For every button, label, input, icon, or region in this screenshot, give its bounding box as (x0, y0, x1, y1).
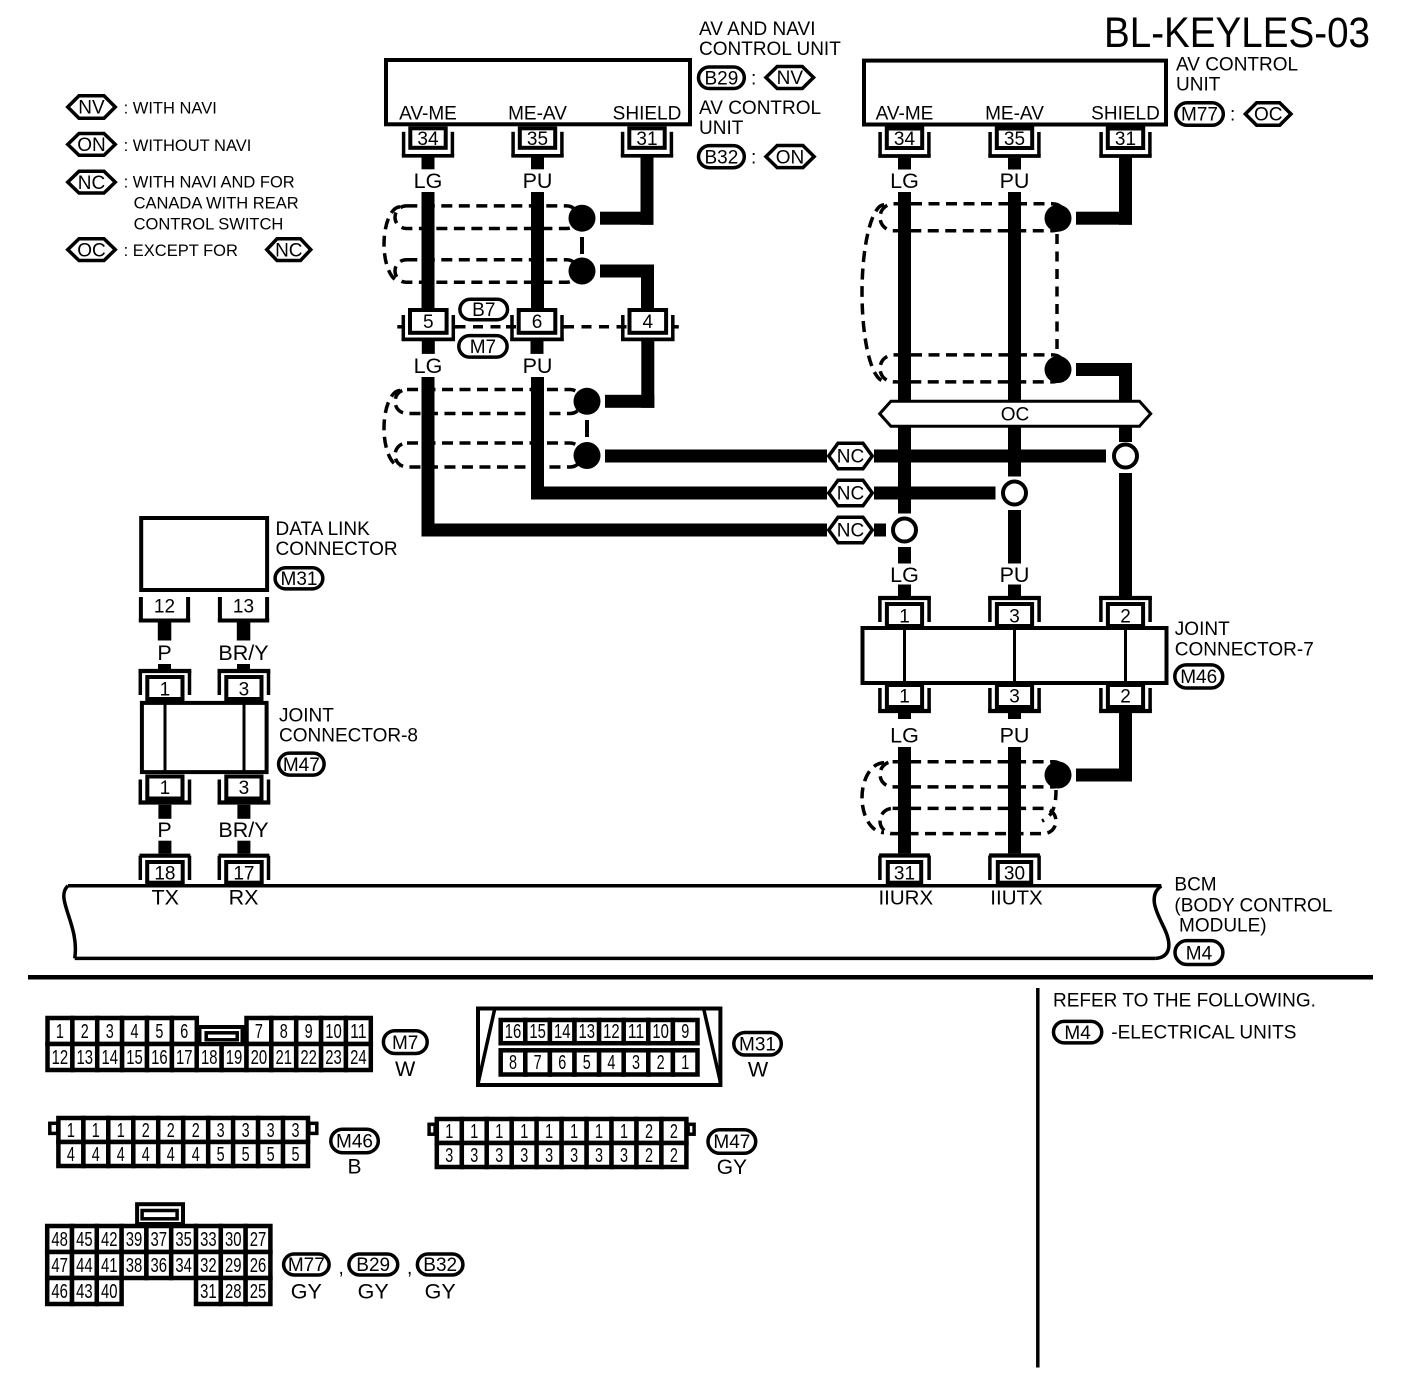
label BR/Y lower (218, 818, 268, 842)
connector ref M77 bottom (284, 1254, 330, 1276)
connector ref M7 bottom (383, 1031, 427, 1054)
wire shield31 right to dot (1076, 158, 1132, 225)
svg-text:17: 17 (233, 864, 254, 885)
svg-text:W: W (395, 1057, 416, 1081)
label RX (229, 886, 259, 910)
svg-text:34: 34 (417, 129, 439, 150)
svg-text:UNIT: UNIT (1176, 75, 1221, 96)
tag OC (1245, 103, 1291, 126)
JC-7 pin 3 top (988, 598, 1041, 628)
stub JC8 pin1 down (158, 805, 171, 819)
svg-text:P: P (157, 818, 171, 842)
svg-text:5: 5 (583, 1052, 591, 1074)
wire shield below banner (1119, 426, 1132, 442)
connector ref M77 (1176, 103, 1224, 126)
wire row2 right (874, 487, 996, 500)
pin 4 (617, 310, 679, 341)
pin 35 left (511, 128, 563, 169)
svg-text:30: 30 (1004, 864, 1025, 885)
pin 34 left (402, 128, 454, 169)
svg-text:TX: TX (152, 886, 179, 910)
svg-text:1: 1 (56, 1021, 64, 1043)
label DATA LINK CONNECTOR (276, 519, 398, 560)
separator line (28, 975, 1373, 980)
svg-text:23: 23 (325, 1047, 342, 1069)
JC-7 pin 2 top (1099, 598, 1152, 628)
svg-text:1: 1 (160, 778, 171, 799)
svg-text:42: 42 (101, 1229, 118, 1251)
svg-text:2: 2 (645, 1121, 653, 1143)
svg-text:LG: LG (890, 563, 919, 587)
connector ref M31 top (275, 568, 323, 590)
svg-text:14: 14 (554, 1021, 571, 1043)
svg-text:M47: M47 (283, 755, 320, 776)
legend tag ON (68, 133, 116, 156)
pin 35 right (988, 129, 1040, 170)
svg-text:NC: NC (837, 484, 864, 505)
svg-text:ON: ON (776, 147, 805, 168)
text ELECTRICAL UNITS (1111, 1023, 1296, 1044)
svg-text:1: 1 (899, 687, 910, 708)
wire dot to pin4 (600, 265, 654, 309)
svg-text:GY: GY (291, 1280, 322, 1304)
svg-text:IIURX: IIURX (878, 887, 933, 910)
connector face M46 (50, 1118, 317, 1166)
connector ref B7 (460, 299, 508, 321)
tag NC row2 (829, 480, 873, 506)
label PU below JC7 (1000, 724, 1030, 748)
comma 1 (339, 1258, 344, 1279)
label P lower (157, 818, 171, 842)
shield tube right big (862, 204, 1066, 382)
svg-text:13: 13 (233, 597, 254, 618)
JC-7 pin 3 bottom (988, 685, 1041, 711)
splice circle row1 (1114, 445, 1137, 468)
JC-8 pin 3 top (218, 671, 271, 701)
label IIUTX (990, 887, 1043, 910)
svg-text:3: 3 (470, 1145, 478, 1167)
svg-text:OC: OC (1001, 405, 1030, 426)
svg-text:AV-ME: AV-ME (399, 103, 457, 124)
BCM pin 18 (140, 856, 191, 885)
svg-text:3: 3 (1009, 607, 1020, 628)
svg-text:BR/Y: BR/Y (218, 818, 268, 842)
title BL-KEYLES-03 (1104, 9, 1370, 57)
svg-text:34: 34 (894, 129, 916, 150)
legend tag OC (68, 239, 116, 262)
svg-text:10: 10 (652, 1021, 669, 1043)
AV and NAVI control unit box (386, 60, 690, 124)
svg-text:BL-KEYLES-03: BL-KEYLES-03 (1104, 9, 1370, 57)
svg-text:1: 1 (67, 1120, 75, 1142)
svg-text:UNIT: UNIT (699, 118, 744, 139)
connector ref B32 bottom (417, 1254, 463, 1276)
svg-text:11: 11 (350, 1021, 367, 1043)
connector ref M31 bottom (734, 1033, 782, 1056)
label AV AND NAVI CONTROL UNIT (699, 19, 841, 60)
svg-text:4: 4 (167, 1144, 175, 1166)
svg-text:4: 4 (607, 1052, 615, 1074)
svg-text:M4: M4 (1064, 1023, 1091, 1044)
svg-text:5: 5 (267, 1144, 275, 1166)
svg-text:3: 3 (520, 1145, 528, 1167)
legend text WITHOUT NAVI (124, 137, 252, 155)
svg-text:8: 8 (509, 1052, 517, 1074)
connector ref M47 mid (279, 753, 325, 776)
JC-7 pin 1 top (878, 598, 931, 628)
legend text CONTROL SWITCH (134, 215, 284, 233)
junction dot D (1045, 762, 1072, 789)
svg-text:45: 45 (76, 1229, 93, 1251)
svg-text:IIUTX: IIUTX (990, 887, 1043, 910)
svg-text:1: 1 (160, 680, 171, 701)
svg-text:CANADA WITH REAR: CANADA WITH REAR (134, 194, 299, 212)
svg-text:AV AND NAVI: AV AND NAVI (699, 19, 816, 40)
svg-text:3: 3 (242, 1120, 250, 1142)
shield tube upper-left (384, 206, 578, 282)
svg-text:LG: LG (890, 169, 919, 193)
svg-text:2: 2 (192, 1120, 200, 1142)
svg-text:ON: ON (77, 135, 106, 156)
pin 31 left (621, 128, 673, 169)
svg-text:: WITH NAVI: : WITH NAVI (124, 100, 217, 118)
stub DLC 12 (158, 623, 172, 641)
junction dot A1 (569, 205, 596, 232)
svg-text:4: 4 (117, 1144, 125, 1166)
svg-text:1: 1 (570, 1121, 578, 1143)
svg-text:13: 13 (579, 1021, 596, 1043)
svg-text:AV-ME: AV-ME (876, 103, 934, 124)
svg-text:6: 6 (532, 312, 543, 333)
svg-text:M46: M46 (336, 1132, 373, 1153)
svg-text:18: 18 (201, 1047, 218, 1069)
svg-text:B29: B29 (356, 1255, 390, 1276)
svg-text:BCM: BCM (1174, 875, 1216, 896)
svg-text:(BODY CONTROL: (BODY CONTROL (1174, 896, 1332, 917)
wire dot C2 to banner (1076, 363, 1132, 401)
svg-text:,: , (407, 1258, 412, 1279)
legend text EXCEPT FOR (124, 242, 238, 260)
junction dot B1 (574, 388, 601, 415)
wire LG circle to label (898, 547, 911, 564)
connector face M31 (478, 1009, 721, 1086)
svg-text:1: 1 (595, 1121, 603, 1143)
connector ref M46 (1175, 665, 1223, 688)
label GY under B32 (425, 1280, 456, 1304)
svg-text:2: 2 (645, 1145, 653, 1167)
label BCM (1174, 875, 1332, 937)
svg-text::: : (1230, 105, 1235, 126)
svg-text:30: 30 (225, 1229, 242, 1251)
svg-text:NC: NC (78, 173, 105, 194)
DLC pin 13 (218, 597, 269, 621)
svg-text:B29: B29 (704, 69, 738, 90)
DLC pin 12 (139, 597, 190, 621)
svg-text:JOINT: JOINT (279, 706, 334, 727)
svg-text:29: 29 (225, 1255, 242, 1277)
connector face M7 (48, 1018, 371, 1070)
junction dot B2 (574, 442, 601, 469)
svg-text:1: 1 (445, 1121, 453, 1143)
label AV CONTROL UNIT (M77) (1176, 55, 1298, 96)
shield dash B (585, 420, 589, 437)
svg-text:CONNECTOR-7: CONNECTOR-7 (1175, 640, 1314, 661)
tag NC row3 (829, 517, 873, 543)
connector ref M46 bottom (331, 1129, 379, 1153)
shield tail dash (1042, 790, 1056, 821)
svg-text:18: 18 (154, 864, 175, 885)
label IIURX (878, 887, 933, 910)
svg-text:15: 15 (126, 1047, 143, 1069)
wire PU JC7-BCM (1008, 747, 1021, 853)
stub into JC8 pin1 (158, 664, 171, 670)
label JOINT CONNECTOR-8 (279, 706, 418, 747)
svg-text:3: 3 (239, 778, 250, 799)
svg-text:6: 6 (180, 1021, 188, 1043)
svg-text:11: 11 (628, 1021, 645, 1043)
svg-text:12: 12 (52, 1047, 69, 1069)
svg-text:31: 31 (1115, 129, 1136, 150)
wire row1 left (605, 450, 827, 463)
svg-text:2: 2 (1120, 607, 1131, 628)
svg-text:: EXCEPT FOR: : EXCEPT FOR (124, 242, 238, 260)
svg-text:B32: B32 (704, 147, 738, 168)
svg-text:1: 1 (545, 1121, 553, 1143)
JC-7 pin 2 bottom (1099, 685, 1152, 711)
svg-text:AV CONTROL: AV CONTROL (699, 98, 821, 119)
svg-text::: : (751, 69, 756, 90)
svg-text:25: 25 (250, 1281, 267, 1303)
tag NV (766, 66, 814, 89)
BCM pin 30 (989, 856, 1040, 885)
JC-8 pin 1 top (139, 671, 192, 701)
svg-text:REFER TO THE FOLLOWING.: REFER TO THE FOLLOWING. (1053, 991, 1316, 1012)
svg-text:2: 2 (167, 1120, 175, 1142)
svg-text:5: 5 (155, 1021, 163, 1043)
stub LG JC7 (898, 585, 911, 597)
svg-text:: WITH NAVI AND FOR: : WITH NAVI AND FOR (124, 174, 295, 192)
junction dot C2 (1045, 356, 1072, 383)
svg-text:BR/Y: BR/Y (218, 641, 268, 665)
svg-text:2: 2 (1120, 687, 1131, 708)
connector ref M4 bottom (1054, 1021, 1102, 1043)
svg-text:W: W (748, 1057, 769, 1081)
svg-text:14: 14 (101, 1047, 118, 1069)
label BR/Y upper (218, 641, 268, 665)
stub DLC 13 (237, 623, 251, 641)
svg-text:36: 36 (151, 1255, 168, 1277)
JC-8 body (142, 703, 267, 772)
svg-text:M77: M77 (288, 1255, 325, 1276)
svg-text:GY: GY (358, 1280, 389, 1304)
svg-text:39: 39 (126, 1229, 143, 1251)
svg-text:2: 2 (670, 1121, 678, 1143)
svg-text:43: 43 (76, 1281, 93, 1303)
svg-text:24: 24 (350, 1047, 367, 1069)
svg-text:3: 3 (620, 1145, 628, 1167)
connector ref B32 (699, 146, 745, 169)
colon 1 (751, 69, 756, 90)
svg-text:3: 3 (217, 1120, 225, 1142)
svg-text:1: 1 (117, 1120, 125, 1142)
svg-text:4: 4 (142, 1144, 150, 1166)
wire PU circle to label (1008, 510, 1021, 564)
label PU above JC7 (1000, 563, 1030, 587)
svg-text:4: 4 (192, 1144, 200, 1166)
svg-text:10: 10 (325, 1021, 342, 1043)
connector ref B29 bottom (349, 1254, 398, 1276)
svg-text:B32: B32 (423, 1255, 457, 1276)
svg-text:1: 1 (92, 1120, 100, 1142)
wire LG right upper (898, 192, 911, 514)
wire pin4 to dot B1 (605, 341, 654, 408)
svg-text:GY: GY (425, 1280, 456, 1304)
svg-text:AV CONTROL: AV CONTROL (1176, 55, 1298, 76)
svg-text:27: 27 (250, 1229, 267, 1251)
svg-text:15: 15 (529, 1021, 546, 1043)
legend text CANADA WITH REAR (134, 194, 299, 212)
label P upper (157, 641, 171, 665)
svg-text:19: 19 (226, 1047, 243, 1069)
svg-text:PU: PU (523, 169, 553, 193)
svg-text:B7: B7 (472, 300, 495, 321)
svg-text:3: 3 (595, 1145, 603, 1167)
legend text WITH NAVI (124, 100, 217, 118)
stub below pin6 (531, 341, 544, 354)
connector face M77/B29/B32 (47, 1204, 270, 1304)
text REFER TO THE FOLLOWING (1053, 991, 1316, 1012)
colon 2 (751, 148, 756, 169)
svg-text:2: 2 (670, 1145, 678, 1167)
svg-text:1: 1 (495, 1121, 503, 1143)
pin 34 right (878, 129, 930, 170)
divider line (1036, 988, 1040, 1368)
pin 6 (506, 310, 568, 341)
shield tube bottom right (862, 762, 1066, 834)
svg-text:3: 3 (570, 1145, 578, 1167)
label PU below 6 (523, 354, 553, 378)
svg-text:16: 16 (151, 1047, 168, 1069)
svg-text:PU: PU (1000, 169, 1030, 193)
JC-8 pin 3 bottom (218, 777, 271, 803)
svg-text:LG: LG (414, 169, 443, 193)
svg-text:31: 31 (894, 864, 915, 885)
label AV CONTROL UNIT (B32) (699, 98, 821, 139)
connector ref M47 bottom (708, 1130, 756, 1154)
legend text WITH NAVI AND FOR (124, 174, 295, 192)
svg-text:3: 3 (292, 1120, 300, 1142)
svg-text:6: 6 (558, 1052, 566, 1074)
stub into JC8 pin3 (237, 664, 250, 670)
svg-text::: : (751, 148, 756, 169)
svg-text:NC: NC (275, 240, 302, 261)
stub below pin5 (422, 341, 435, 354)
svg-text:35: 35 (1004, 129, 1025, 150)
legend tag NC 2 (267, 239, 311, 262)
junction dot C1 (1045, 205, 1072, 232)
svg-text:3: 3 (267, 1120, 275, 1142)
svg-text:-ELECTRICAL UNITS: -ELECTRICAL UNITS (1111, 1023, 1296, 1044)
svg-text:NC: NC (837, 521, 864, 542)
svg-text:3: 3 (106, 1021, 114, 1043)
svg-text:LG: LG (414, 354, 443, 378)
splice circle row3 (893, 519, 916, 542)
svg-text:CONTROL UNIT: CONTROL UNIT (699, 39, 841, 60)
tag NC row1 (829, 443, 873, 469)
label JOINT CONNECTOR-7 (1175, 619, 1314, 661)
svg-text:M7: M7 (470, 337, 496, 358)
label LG above JC7 (890, 563, 919, 587)
svg-text:1: 1 (520, 1121, 528, 1143)
svg-text:NC: NC (837, 447, 864, 468)
svg-text:GY: GY (717, 1156, 747, 1179)
label TX (152, 886, 179, 910)
label PU right (1000, 169, 1030, 193)
svg-text:NV: NV (78, 98, 105, 119)
stub into BCM 18 (158, 841, 171, 854)
svg-text:41: 41 (101, 1255, 118, 1277)
svg-text:12: 12 (603, 1021, 620, 1043)
svg-text:13: 13 (77, 1047, 94, 1069)
wire PU 35-6 (531, 192, 544, 308)
svg-text:M46: M46 (1180, 667, 1217, 688)
svg-text:35: 35 (175, 1229, 192, 1251)
svg-text:M47: M47 (713, 1132, 750, 1153)
stub JC7 pin1 down (898, 711, 911, 719)
svg-text:34: 34 (175, 1255, 192, 1277)
svg-text:8: 8 (280, 1021, 288, 1043)
svg-text:LG: LG (890, 724, 919, 748)
svg-text:3: 3 (445, 1145, 453, 1167)
JC-7 pin 1 bottom (878, 685, 931, 711)
svg-text:3: 3 (632, 1052, 640, 1074)
banner OC (880, 401, 1151, 426)
svg-text:M4: M4 (1186, 943, 1213, 964)
AV control unit box (864, 61, 1166, 125)
svg-text:PU: PU (1000, 563, 1030, 587)
svg-text:2: 2 (81, 1021, 89, 1043)
svg-text:OC: OC (1254, 105, 1283, 126)
svg-text:44: 44 (76, 1255, 93, 1277)
svg-text:5: 5 (242, 1144, 250, 1166)
svg-text:32: 32 (200, 1255, 217, 1277)
JC-7 body (863, 628, 1167, 683)
wire row1 right (874, 450, 1106, 463)
svg-text:31: 31 (636, 129, 657, 150)
svg-text:M31: M31 (739, 1034, 776, 1055)
label GY under M47 (717, 1156, 747, 1179)
stub JC7 pin3 down (1008, 711, 1021, 719)
svg-text:JOINT: JOINT (1175, 619, 1230, 640)
tag ON (766, 146, 814, 169)
stub into BCM 17 (237, 841, 250, 854)
svg-text:28: 28 (225, 1281, 242, 1303)
wire LG 34-5 (422, 192, 435, 308)
label GY under B29 (358, 1280, 389, 1304)
svg-text:CONTROL SWITCH: CONTROL SWITCH (134, 215, 284, 233)
svg-text:ME-AV: ME-AV (508, 103, 567, 124)
svg-text:2: 2 (657, 1052, 665, 1074)
connector ref B29 (699, 67, 745, 90)
svg-text:CONNECTOR-8: CONNECTOR-8 (279, 726, 418, 747)
legend tag NV (68, 96, 116, 119)
svg-text:20: 20 (251, 1047, 268, 1069)
svg-text:NV: NV (777, 68, 804, 89)
svg-text:33: 33 (200, 1229, 217, 1251)
legend tag NC (68, 171, 116, 194)
stub JC8 pin3 down (237, 805, 250, 819)
wire shield to JC7 pin2 (1119, 473, 1132, 596)
